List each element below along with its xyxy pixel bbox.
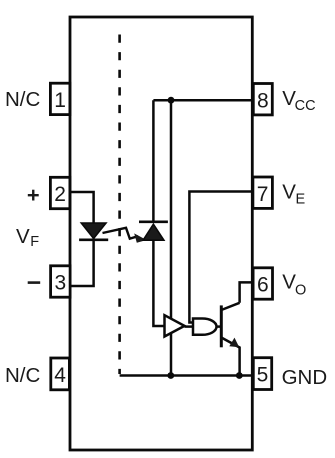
svg-text:2: 2 xyxy=(54,183,66,206)
wire VCC to photodiode cathode xyxy=(152,100,155,222)
wire collector to pin6 xyxy=(240,282,253,302)
wire photodiode anode to amplifier input xyxy=(153,240,164,326)
svg-text:E: E xyxy=(296,192,306,208)
svg-text:3: 3 xyxy=(54,272,66,295)
label GND xyxy=(282,366,328,389)
svg-text:7: 7 xyxy=(257,183,269,206)
pin 7 box xyxy=(253,177,273,208)
svg-text:8: 8 xyxy=(257,89,269,112)
svg-text:F: F xyxy=(30,234,39,250)
amplifier U1 xyxy=(165,315,185,336)
light coupling arrow xyxy=(103,228,147,243)
wire gate output to transistor base xyxy=(217,325,221,328)
svg-text:O: O xyxy=(295,283,306,299)
pin 6 box xyxy=(253,268,272,299)
pin 5 box xyxy=(253,358,271,390)
svg-text:N/C: N/C xyxy=(5,88,41,111)
junction ground-emitter xyxy=(236,372,243,379)
wire amplifier supply (behind amplifier) xyxy=(170,100,173,375)
wire ground rail to pin5 xyxy=(120,374,253,377)
wire VCC rail pin8 xyxy=(153,99,253,102)
wire amplifier output to gate xyxy=(185,325,193,328)
LED emitter diode xyxy=(79,223,108,240)
wire pin2 to LED anode xyxy=(69,192,94,223)
svg-text:1: 1 xyxy=(54,89,66,112)
label VO xyxy=(282,271,306,299)
label VF xyxy=(16,225,39,250)
photodiode xyxy=(139,222,168,240)
label - cathode xyxy=(28,281,41,284)
pin 3 box xyxy=(51,266,71,297)
pin 2 box xyxy=(50,177,70,208)
svg-text:V: V xyxy=(16,225,30,248)
label VCC xyxy=(282,87,315,114)
isolation barrier dashed line xyxy=(118,35,121,375)
junction ground-amplifier xyxy=(167,372,174,379)
svg-text:GND: GND xyxy=(282,366,328,389)
transistor Q1 xyxy=(221,303,239,348)
pin 8 box xyxy=(253,84,272,115)
svg-text:V: V xyxy=(282,181,296,204)
svg-text:6: 6 xyxy=(257,274,269,297)
svg-text:N/C: N/C xyxy=(5,364,41,387)
junction VCC node xyxy=(168,97,175,104)
IC body outline xyxy=(70,17,252,450)
label N/C pin1 xyxy=(5,88,41,111)
wire VE pin7 to gate enable input xyxy=(189,192,251,323)
pin 1 box xyxy=(50,83,70,114)
label N/C pin4 xyxy=(5,364,41,387)
svg-text:CC: CC xyxy=(295,98,316,114)
svg-text:5: 5 xyxy=(257,364,269,387)
label VE xyxy=(282,181,305,208)
pin 4 box xyxy=(51,358,70,390)
label + anode xyxy=(28,190,39,201)
AND gate U2 xyxy=(193,319,217,335)
svg-text:4: 4 xyxy=(54,364,66,387)
wire LED cathode to pin3 xyxy=(69,239,94,286)
wire emitter to ground rail xyxy=(238,347,241,376)
